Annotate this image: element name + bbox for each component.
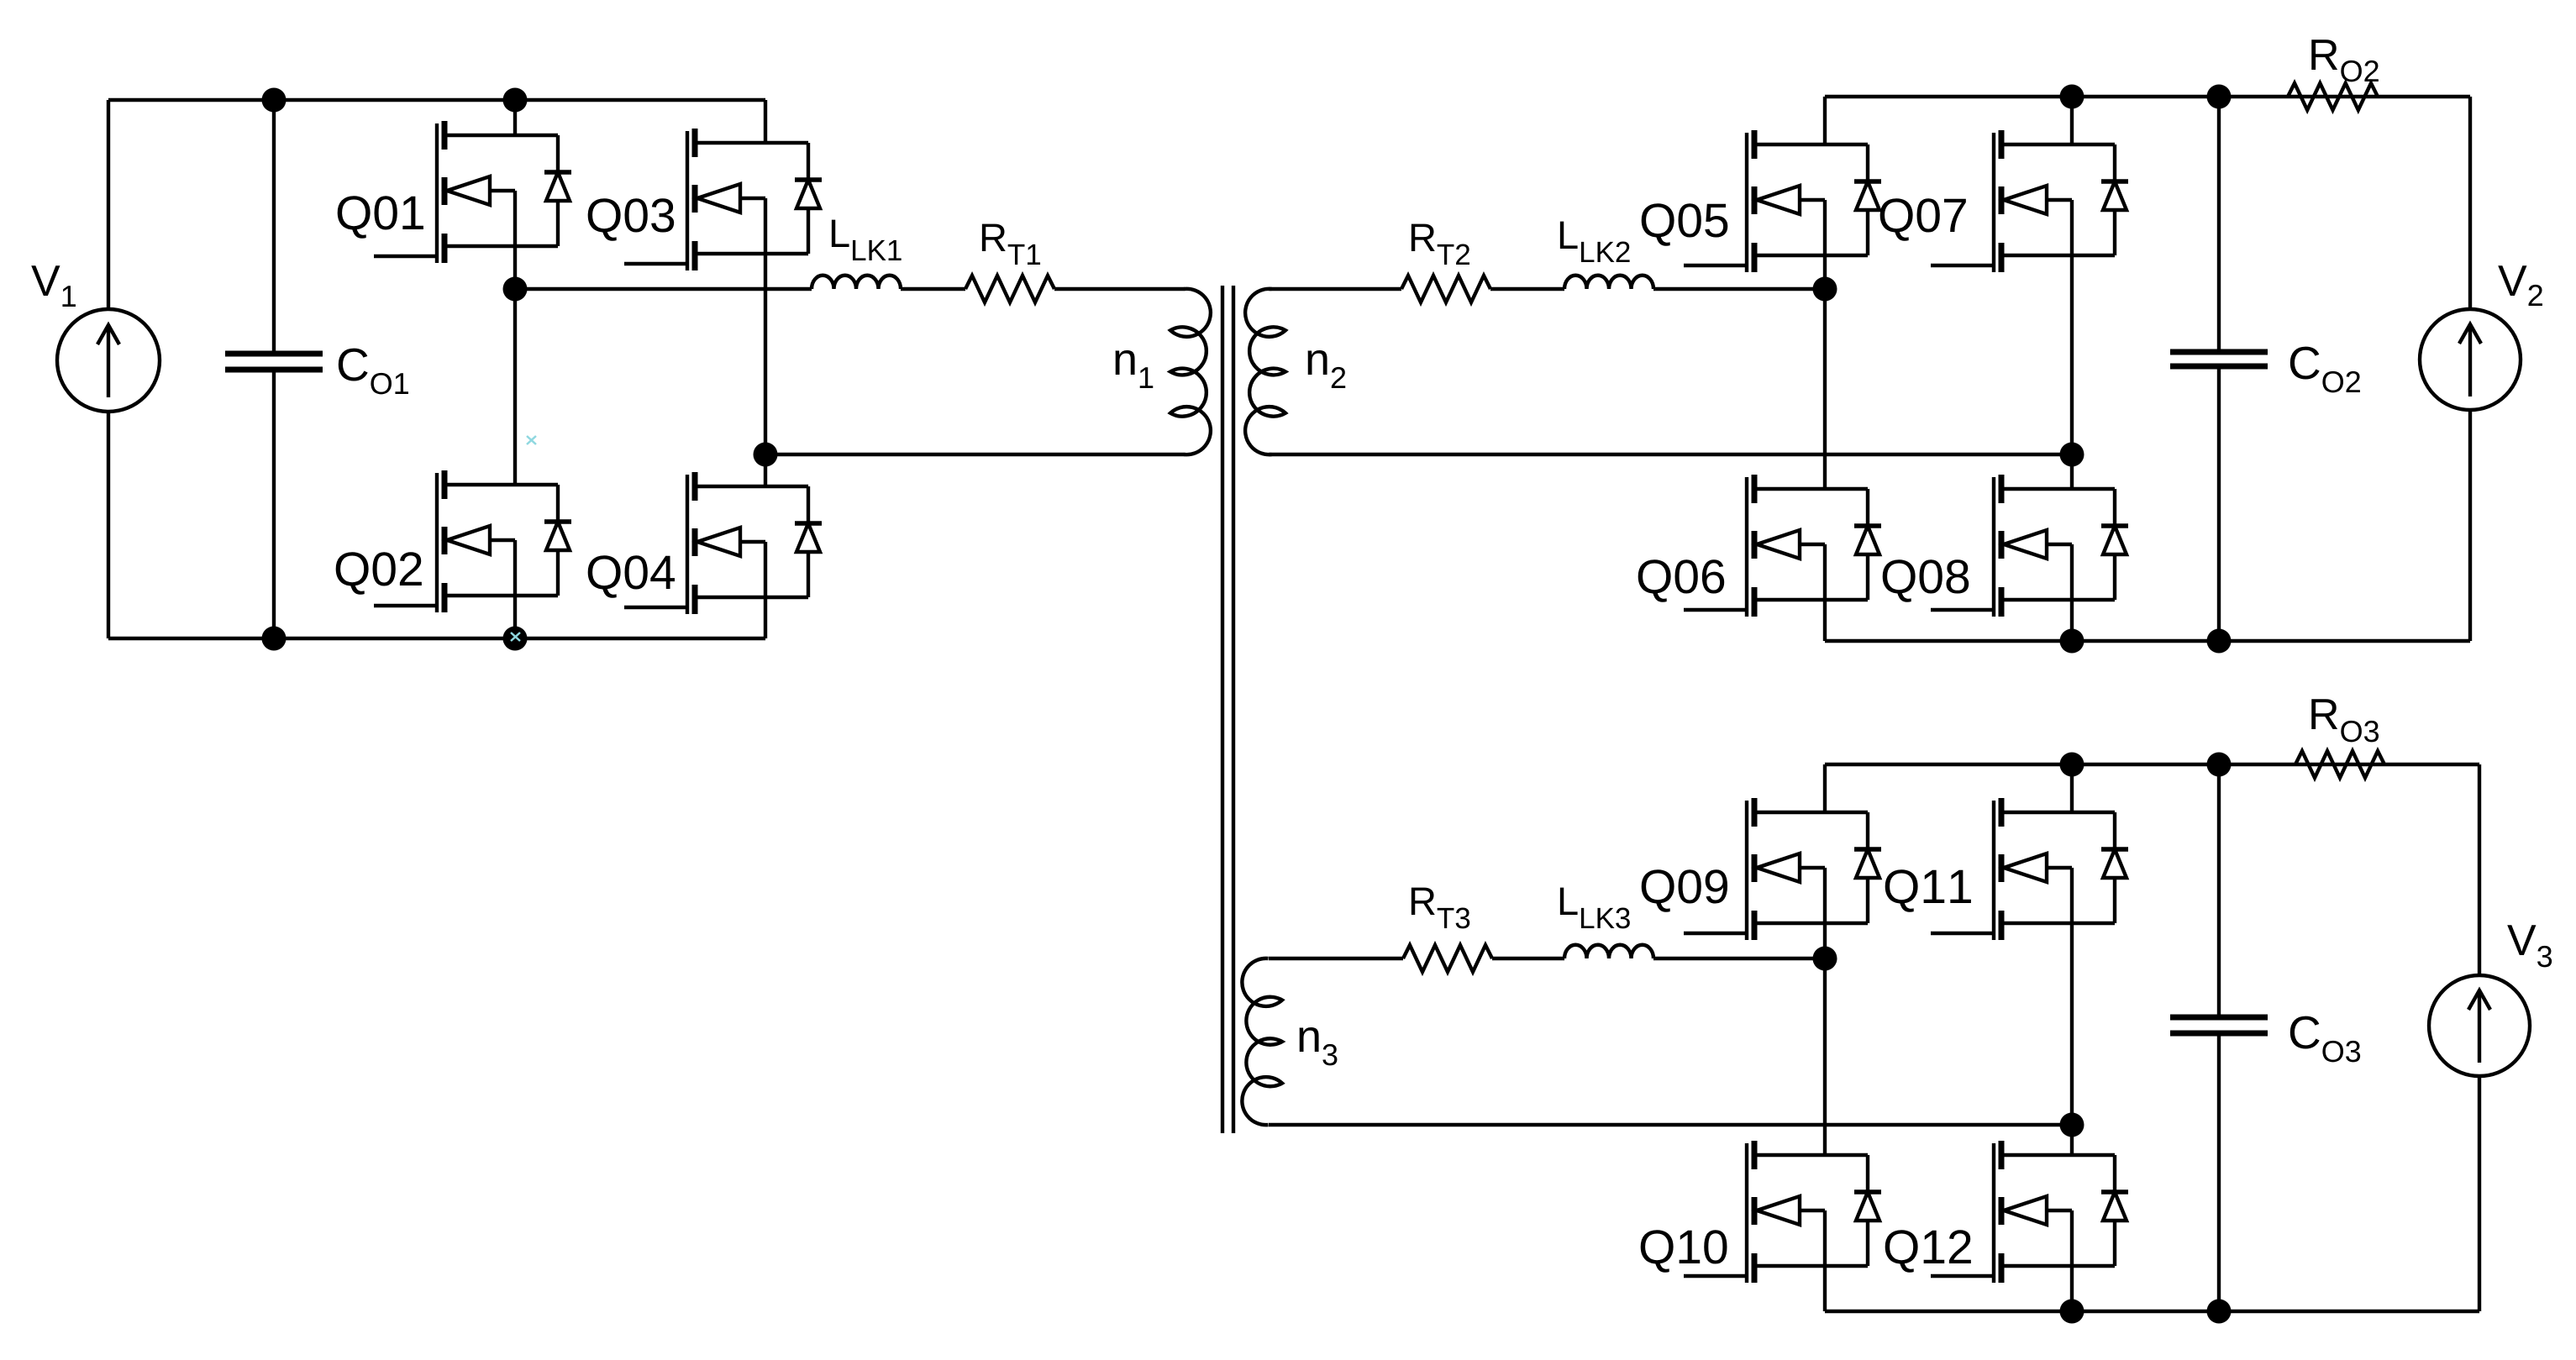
wire winding n3 to RT3 [1269,957,1403,960]
node: Q12 source junction [2060,1300,2084,1324]
node: CO3 top junction [2207,753,2232,777]
label n3 [1300,1027,1338,1065]
label RO3 [2311,699,2379,742]
label Q04 [588,555,675,598]
label Q09 [1642,869,1727,912]
wire RT1 to winding n1 [1054,287,1185,291]
node: left leg bottom junction [503,627,528,651]
capacitor CO1 [225,100,323,638]
node A3: bottom bridge left leg midpoint [1813,947,1837,971]
transistor Q09 [1684,764,1881,958]
wire node A1 to LLK1 [515,287,812,291]
transistor Q05 [1684,97,1881,289]
label RT1 [982,224,1040,265]
transistor Q10 [1684,958,1881,1311]
label Q10 [1641,1230,1727,1273]
wire LLK3 to node A3 [1653,957,1825,960]
label LLK3 [1560,888,1630,929]
label CO3 [2290,1016,2360,1063]
label V1 [31,265,76,307]
node: CO1 top junction [262,88,287,113]
wire winding n2 bottom to node B2 [1269,453,2072,456]
node B1: right leg midpoint [754,443,778,467]
transistor Q08 [1931,454,2128,641]
label CO2 [2290,347,2360,393]
transistor Q07 [1931,97,2128,454]
node: Q11 drain junction [2060,753,2084,777]
resistor RO3 [2295,751,2384,778]
voltage source V1 [57,100,160,638]
transformer winding n1 [1170,289,1211,454]
resistor RO2 [2288,83,2378,110]
node: CO1 bottom junction [262,627,287,651]
wire winding n3 bottom to node B3 [1269,1123,2072,1126]
inductor LLK3 [1564,945,1653,958]
node B2: right bridge right leg midpoint [2060,443,2084,467]
node A2: right bridge left leg midpoint [1813,277,1837,302]
transformer winding n2 [1245,289,1285,454]
stray cursor mark 2 [511,633,520,641]
label RT2 [1412,224,1469,265]
node: Q07 drain junction [2060,85,2084,109]
transistor Q04 [624,454,822,638]
label V3 [2507,925,2552,967]
wire node B1 to winding n1 bottom [765,453,1185,456]
resistor RT3 [1403,945,1492,972]
voltage source V3 [2429,764,2530,1311]
transistor Q01 [374,100,571,289]
transformer winding n3 [1242,958,1282,1125]
label Q01 [338,196,423,239]
inductor LLK1 [812,276,901,289]
wire top rail bottom bridge [1825,763,2479,766]
label Q07 [1880,198,1966,241]
transformer core [1222,286,1233,1133]
transistor Q12 [1931,1125,2128,1311]
node: Q08 source junction [2060,629,2084,654]
label RT3 [1412,888,1469,929]
label Q02 [336,552,422,595]
wire top rail left bridge [108,98,765,102]
transistor Q06 [1684,289,1881,641]
label RO2 [2311,39,2379,81]
label CO1 [339,349,408,395]
node: CO3 bottom junction [2207,1300,2232,1324]
voltage source V2 [2420,97,2521,641]
label Q06 [1638,559,1724,602]
wire RT3 to LLK3 [1492,957,1564,960]
capacitor CO3 [2170,764,2268,1311]
wire bottom rail right bridge [1825,639,2470,643]
node: CO2 top junction [2207,85,2232,109]
node: left leg top junction [503,88,528,113]
label Q05 [1642,203,1728,246]
label V2 [2498,265,2542,306]
node A1: left bridge output [503,277,528,302]
label Q12 [1885,1230,1971,1273]
label Q08 [1883,559,1969,602]
transistor Q02 [374,289,571,638]
inductor LLK2 [1564,276,1653,289]
wire LLK2 to node A2 [1653,287,1825,291]
wire RT2 to LLK2 [1490,287,1564,291]
wire winding n2 to RT2 [1269,287,1401,291]
label LLK2 [1560,222,1630,262]
transistor Q03 [624,100,822,454]
transistor Q11 [1931,764,2128,1125]
resistor RT2 [1401,276,1490,302]
stray cursor mark [527,436,536,444]
wire LLK1 to RT1 [901,287,965,291]
resistor RT1 [965,276,1054,302]
label n1 [1116,350,1154,388]
label Q11 [1885,869,1971,912]
wire bottom rail bottom bridge [1825,1310,2479,1313]
label Q03 [588,198,674,241]
node: CO2 bottom junction [2207,629,2232,654]
label LLK1 [832,220,902,260]
wire top rail right bridge [1825,95,2470,98]
node B3: bottom bridge right leg midpoint [2060,1113,2084,1137]
wire bottom rail left bridge [108,637,765,640]
capacitor CO2 [2170,97,2268,641]
label n2 [1308,350,1346,388]
